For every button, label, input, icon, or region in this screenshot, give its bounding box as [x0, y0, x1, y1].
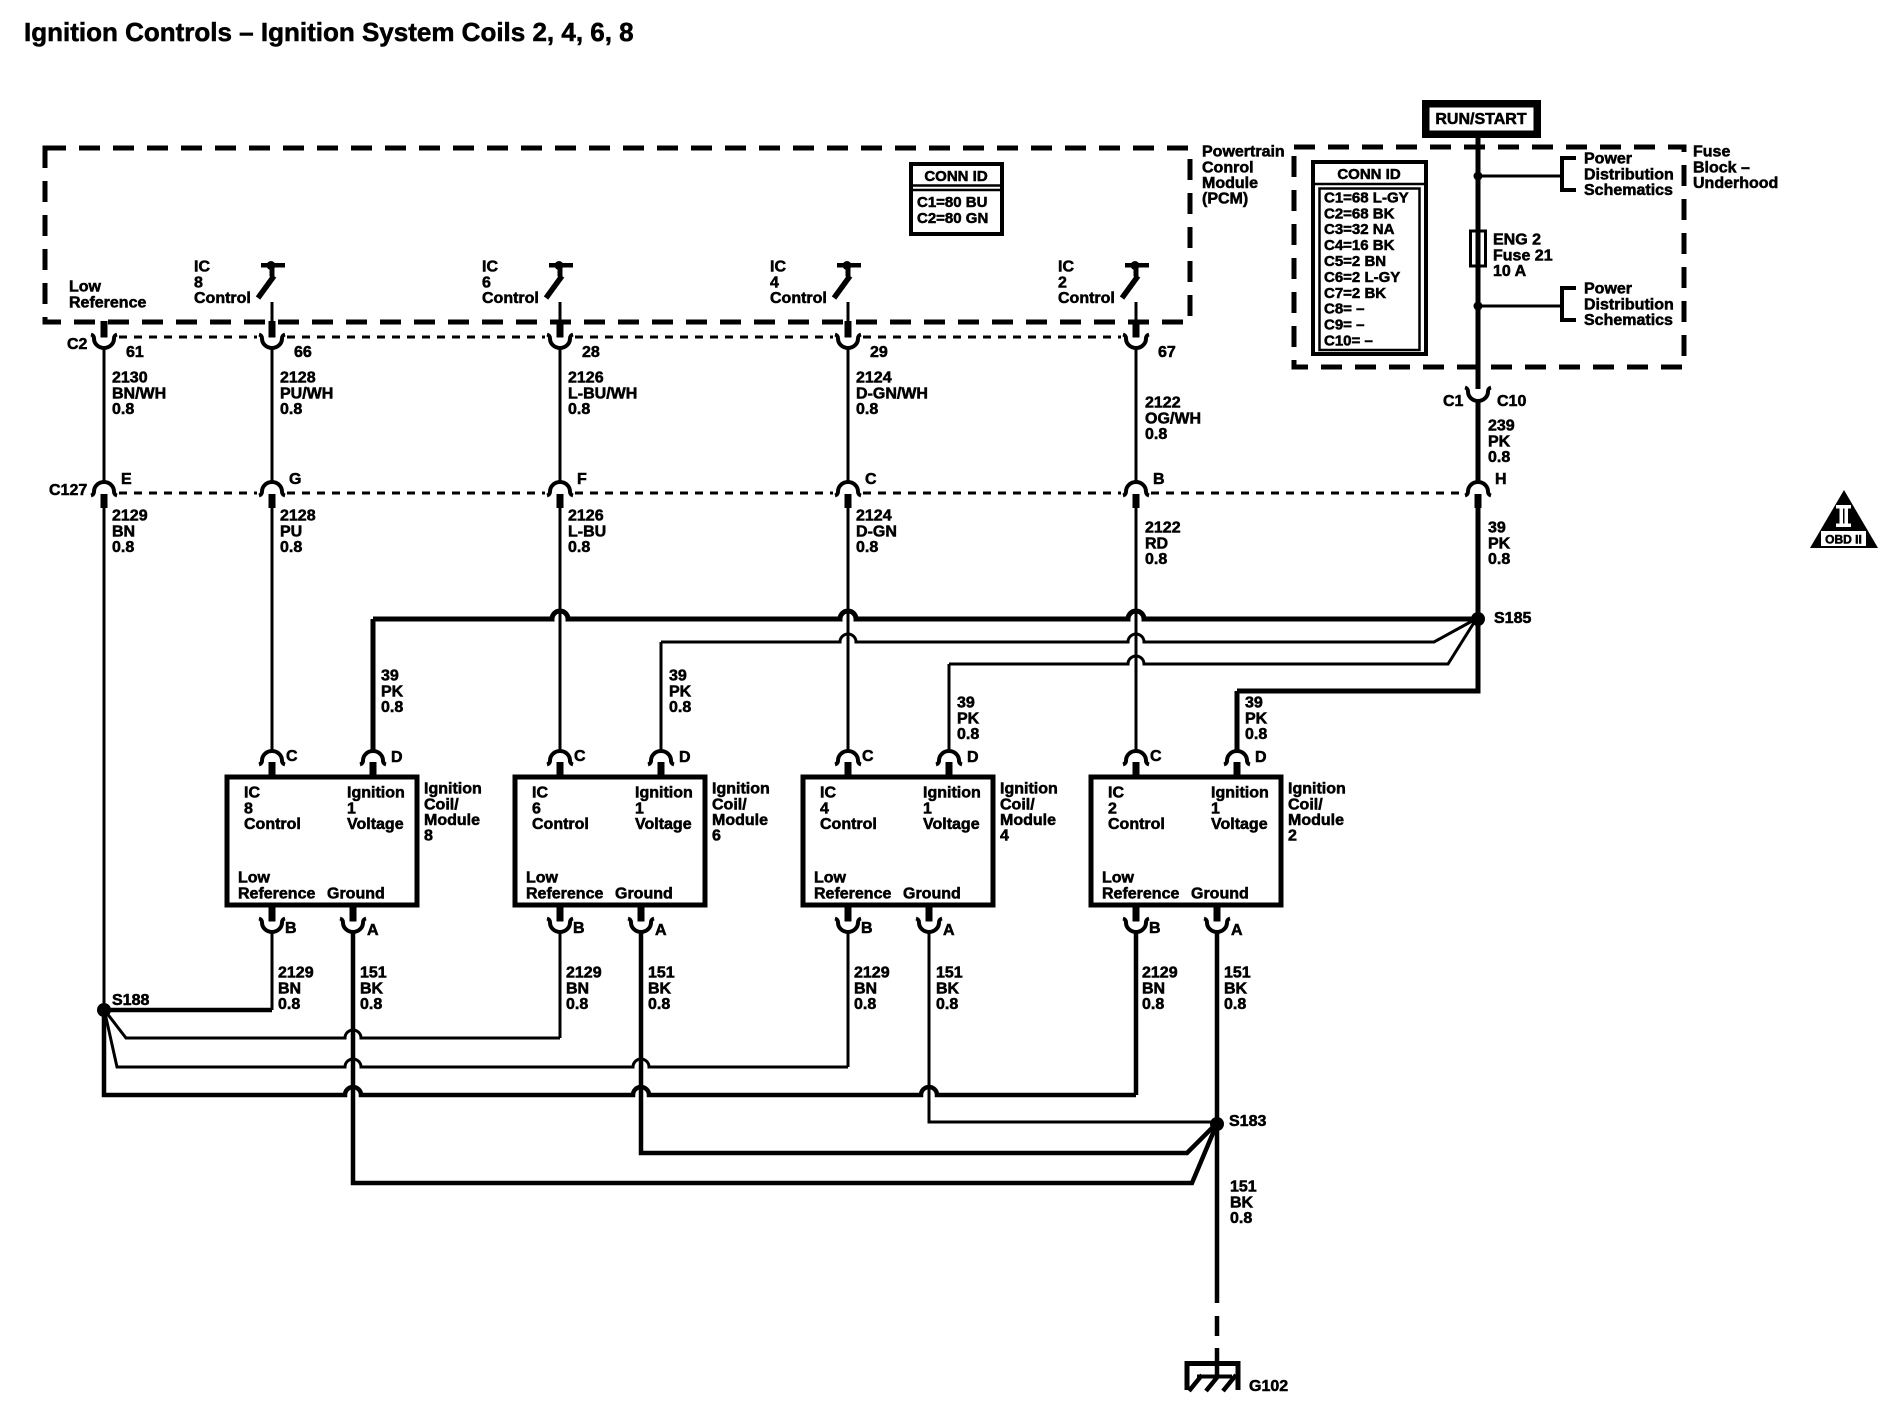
connector row C2 dotted harness line — [119, 336, 257, 339]
svg-text:A: A — [943, 922, 955, 939]
coil 4 pin D terminal — [936, 751, 962, 764]
svg-text:B: B — [573, 920, 585, 937]
svg-text:67: 67 — [1158, 344, 1176, 361]
fuse block CONN ID table — [1313, 162, 1426, 354]
PCM connector C2 cavity 29 terminal — [845, 321, 852, 338]
wire 39 PK drop to coil 6 pin D — [660, 642, 663, 751]
svg-text:S183: S183 — [1229, 1113, 1266, 1130]
svg-text:C1: C1 — [1443, 393, 1464, 410]
svg-text:Ground: Ground — [327, 886, 385, 903]
svg-text:CONN ID: CONN ID — [1337, 166, 1401, 183]
svg-text:D: D — [967, 749, 979, 766]
wire tap to power distribution schematics upper — [1478, 175, 1560, 178]
svg-text:B: B — [285, 920, 297, 937]
coil 2 pin A terminal — [1214, 905, 1221, 922]
svg-text:C1=80 BUC2=80 GN: C1=80 BUC2=80 GN — [917, 194, 988, 227]
wire segment C2 to C127 column 3 — [559, 348, 562, 482]
svg-text:D: D — [679, 749, 691, 766]
OBD II triangle marker — [1810, 490, 1878, 548]
svg-text:D: D — [391, 749, 403, 766]
Fuse Block - Underhood dashed outline box — [1294, 147, 1684, 367]
wire tap to power distribution schematics lower — [1478, 305, 1560, 308]
wire 39 PK splice run to coil 8 pin D — [373, 611, 1478, 619]
svg-text:CONN ID: CONN ID — [924, 168, 988, 185]
svg-text:C10: C10 — [1497, 393, 1526, 410]
splice S188 — [97, 1003, 111, 1017]
fuse ENG 2 Fuse 21 10 A — [1471, 231, 1486, 266]
wire from IC 6 Control switch to PCM connector — [559, 302, 562, 322]
wire from IC 2 Control switch to PCM connector — [1135, 302, 1138, 322]
wire segment C2 to C127 column 1 — [103, 348, 106, 482]
svg-text:G: G — [289, 471, 301, 488]
PCM connector C2 cavity 67 terminal — [1133, 321, 1140, 338]
connector C127 terminal H — [1465, 482, 1491, 496]
PCM connector C2 cavity 66 terminal — [269, 321, 276, 338]
coil 4 pin B terminal — [845, 905, 852, 922]
wire segment C2 to C127 column 2 — [271, 348, 274, 482]
connector C127 terminal E — [91, 482, 117, 496]
connector C127 terminal F — [547, 482, 573, 496]
wire 39 PK drop to coil 4 pin D — [948, 664, 951, 751]
coil 6 pin A terminal — [638, 905, 645, 922]
wire 2129 BN coil 4 pin B to splice S188 — [847, 932, 850, 1067]
coil 8 pin A terminal — [350, 905, 357, 922]
IC 4 Control driver switch inside PCM — [837, 263, 861, 268]
coil 4 pin A terminal — [926, 905, 933, 922]
svg-text:29: 29 — [870, 344, 888, 361]
wire 39 PK splice run to coil 2 pin D — [1237, 619, 1478, 691]
connector row C127 dotted harness line — [119, 492, 257, 495]
coil 2 pin D terminal — [1224, 751, 1250, 764]
svg-text:Ground: Ground — [615, 886, 673, 903]
splice S185 — [1471, 612, 1485, 626]
svg-text:C127: C127 — [49, 482, 87, 499]
wire 2129 BN coil 8 pin B down to splice S188 — [271, 932, 274, 1010]
svg-text:B: B — [1149, 920, 1161, 937]
svg-text:A: A — [1231, 922, 1243, 939]
svg-text:28: 28 — [582, 344, 600, 361]
wire 151 BK coil 8 pin A to splice S183 — [353, 932, 1216, 1183]
ignition coil/module 2 box U4 — [1091, 777, 1281, 905]
wire from C127-G down to ignition coil pin C — [271, 508, 274, 751]
svg-text:C: C — [1150, 748, 1162, 765]
PCM module dashed outline box — [45, 148, 1190, 322]
wire segment C2 to C127 column 5 — [1135, 348, 1138, 482]
wire 39 PK from C127-H down to splice S185 — [1476, 508, 1481, 619]
svg-text:Ground: Ground — [903, 886, 961, 903]
wire 151 BK coil 4 pin A to splice S183 — [929, 932, 1217, 1122]
wire 39 PK drop to coil 2 pin D — [1235, 691, 1240, 751]
IC 8 Control driver switch inside PCM — [261, 263, 285, 268]
coil 6 pin B terminal — [557, 905, 564, 922]
connector C1 C10 in-line connector — [1465, 388, 1491, 402]
ignition coil/module 4 box U3 — [803, 777, 993, 905]
svg-text:Ignition Controls – Ignition S: Ignition Controls – Ignition System Coil… — [24, 17, 634, 47]
wire from C127-B down to ignition coil pin C — [1135, 508, 1138, 751]
coil 8 pin D terminal — [360, 751, 386, 764]
PCM internal CONN ID table — [911, 164, 1002, 234]
svg-text:G102: G102 — [1249, 1378, 1288, 1395]
wire RUN/START feed down through fuse block — [1476, 138, 1481, 389]
svg-text:B: B — [1153, 471, 1165, 488]
svg-text:S188: S188 — [112, 992, 149, 1009]
IC 6 Control driver switch inside PCM — [549, 263, 573, 268]
svg-text:C2: C2 — [67, 336, 88, 353]
coil 4 pin C terminal — [835, 751, 861, 764]
svg-text:D: D — [1255, 749, 1267, 766]
svg-text:C: C — [862, 748, 874, 765]
coil 6 pin C terminal — [547, 751, 573, 764]
svg-text:C: C — [286, 748, 298, 765]
svg-text:61: 61 — [126, 344, 144, 361]
wire 239 PK from C1-C10 to C127-H — [1476, 401, 1481, 482]
svg-text:S185: S185 — [1494, 610, 1531, 627]
wire from IC 4 Control switch to PCM connector — [847, 302, 850, 322]
wire 39 PK splice run to coil 6 pin D — [661, 620, 1474, 642]
wire 151 BK coil 6 pin A to splice S183 — [641, 932, 1215, 1153]
splice S183 — [1210, 1117, 1224, 1131]
wire 2129 BN coil 6 pin B to splice S188 — [559, 932, 562, 1038]
PCM connector C2 cavity 28 terminal — [557, 321, 564, 338]
svg-text:A: A — [655, 922, 667, 939]
wire segment C2 to C127 column 4 — [847, 348, 850, 482]
IC 2 Control driver switch inside PCM — [1125, 263, 1149, 268]
svg-text:Ground: Ground — [1191, 886, 1249, 903]
bracket symbol power distribution lower — [1562, 288, 1576, 320]
wire 2129 BN coil 2 pin B to splice S188 — [1134, 932, 1139, 1095]
coil 8 pin B terminal — [269, 905, 276, 922]
svg-text:B: B — [861, 920, 873, 937]
coil 8 pin C terminal — [259, 751, 285, 764]
connector C127 terminal B — [1123, 482, 1149, 496]
dashed continuation of ground wire to G102 — [1215, 1316, 1220, 1336]
coil 2 pin C terminal — [1123, 751, 1149, 764]
wire 39 PK splice run to coil 4 pin D — [949, 621, 1475, 664]
svg-text:66: 66 — [294, 344, 312, 361]
svg-text:RUN/START: RUN/START — [1435, 111, 1526, 128]
PCM connector C2 cavity 61 terminal — [101, 321, 108, 338]
svg-text:H: H — [1495, 471, 1507, 488]
connector C127 terminal C — [835, 482, 861, 496]
wire from C127-F down to ignition coil pin C — [559, 508, 562, 751]
junction dot upper power distribution tap — [1474, 172, 1483, 181]
svg-text:F: F — [577, 471, 587, 488]
coil 6 pin D terminal — [648, 751, 674, 764]
connector C127 terminal G — [259, 482, 285, 496]
ignition coil/module 6 box U2 — [515, 777, 705, 905]
RUN/START voltage tag box — [1422, 100, 1541, 138]
ignition coil/module 8 box U1 — [227, 777, 417, 905]
coil 2 pin B terminal — [1133, 905, 1140, 922]
wire 39 PK drop to coil 8 pin D — [371, 619, 376, 751]
bracket symbol power distribution upper — [1562, 158, 1576, 190]
wire 151 BK coil 2 pin A down through splice S183 — [1215, 932, 1220, 1303]
wire from IC 8 Control switch to PCM connector — [271, 302, 274, 322]
wire from C127-C down to ignition coil pin C — [847, 508, 850, 751]
svg-text:C: C — [574, 748, 586, 765]
svg-text:C: C — [865, 471, 877, 488]
wire 2129 BN from C127-E down to splice S188 — [103, 508, 106, 1010]
svg-text:E: E — [121, 471, 132, 488]
svg-text:OBD II: OBD II — [1825, 533, 1862, 547]
junction dot lower power distribution tap — [1474, 302, 1483, 311]
ground G102 symbol — [1187, 1364, 1238, 1391]
svg-text:A: A — [367, 922, 379, 939]
